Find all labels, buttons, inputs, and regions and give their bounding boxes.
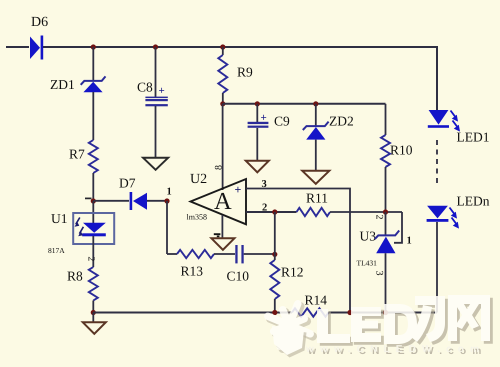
ground below ZD2 xyxy=(302,171,329,184)
svg-text:R7: R7 xyxy=(69,147,85,162)
resistor R7 xyxy=(89,140,98,173)
svg-text:R9: R9 xyxy=(237,65,253,80)
label R13 xyxy=(181,264,204,279)
junction bottom rail / R12 xyxy=(272,310,277,315)
svg-text:1: 1 xyxy=(407,236,412,247)
ground op-amp V- xyxy=(211,238,234,250)
svg-text:LEDn: LEDn xyxy=(457,194,490,209)
diode D7 xyxy=(130,192,147,210)
plus sign of op-amp xyxy=(235,183,242,197)
wire bottom rail right xyxy=(329,312,438,314)
svg-text:2: 2 xyxy=(374,215,385,220)
wire U3 anode to bottom rail xyxy=(385,253,387,312)
tl431 U3 xyxy=(375,231,399,254)
label ZD1 xyxy=(50,77,75,92)
svg-text:ZD1: ZD1 xyxy=(50,77,75,92)
label U3 xyxy=(360,229,377,244)
wire U1 to R8 xyxy=(92,236,94,267)
svg-text:C8: C8 xyxy=(137,80,153,95)
svg-text:LED1: LED1 xyxy=(457,130,490,145)
junction bottom rail / U3 xyxy=(383,310,388,315)
wire ZD2 to ground xyxy=(315,140,317,171)
junction bus / C9 xyxy=(255,101,260,106)
resistor R13 xyxy=(177,250,214,258)
wire C9 to ground xyxy=(256,128,258,161)
wire C9 column upper xyxy=(256,104,258,122)
svg-text:U2: U2 xyxy=(190,172,207,187)
junction pin2 / R12 column xyxy=(272,209,277,214)
svg-text:+: + xyxy=(159,85,165,97)
wire V+ bus xyxy=(223,103,386,105)
wire bus to op-amp V+ pin8 xyxy=(222,104,224,190)
svg-text:R8: R8 xyxy=(67,269,83,284)
junction C10 / R12 xyxy=(272,252,277,257)
wire ZD1 to R7 xyxy=(92,92,94,140)
wire op-amp V- pin4 down xyxy=(221,215,223,238)
svg-text:TL431: TL431 xyxy=(357,259,378,268)
label D6 xyxy=(31,15,48,30)
wire bus corner down to R10 xyxy=(385,104,387,135)
ground below C8 xyxy=(143,158,168,170)
label 817A xyxy=(48,246,65,255)
label U1 xyxy=(51,211,68,226)
label C10 xyxy=(227,269,250,284)
plus sign of C8 xyxy=(159,85,165,97)
label R10 xyxy=(390,143,413,158)
wire pin3 to sense column xyxy=(246,189,350,313)
junction op-amp output node xyxy=(164,198,169,203)
svg-text:U3: U3 xyxy=(360,229,377,244)
plus sign of C9 xyxy=(261,112,267,124)
pin 2 label xyxy=(262,203,267,214)
op-amp U2 triangle xyxy=(191,179,247,224)
LED LEDn xyxy=(427,206,459,229)
wire R13 to C10 xyxy=(214,253,235,255)
wire U3 reference loop xyxy=(394,212,402,243)
ground below R8 xyxy=(83,322,106,334)
wire op-amp output to feedback column xyxy=(166,201,168,254)
wire R11 to U3 node xyxy=(330,211,402,213)
wire pin2 column down xyxy=(274,212,276,254)
pin 4 mark xyxy=(214,234,221,236)
wire node A into U1 xyxy=(92,201,94,223)
pin 1 label xyxy=(167,187,172,198)
wire R7 to node A xyxy=(92,173,94,201)
label R8 xyxy=(67,269,83,284)
resistor R12 xyxy=(270,260,279,299)
wire junction to ground U1 column xyxy=(92,313,94,323)
resistor R9 xyxy=(218,55,227,93)
wire C10 to R12 column xyxy=(244,253,275,255)
capacitor C10 xyxy=(235,245,243,263)
svg-text:C10: C10 xyxy=(227,269,250,284)
junction bus / R9 xyxy=(220,101,225,106)
wire node A to D7 xyxy=(93,200,129,202)
svg-text:R13: R13 xyxy=(181,264,204,279)
resistor R8 xyxy=(89,267,98,301)
pin 8 (infinity mark) xyxy=(214,165,225,170)
wire ZD2 column upper xyxy=(315,104,317,126)
wire bottom rail left xyxy=(93,312,292,314)
junction top rail / C8 column xyxy=(153,44,158,49)
junction node A (R7/D7/U1) xyxy=(91,198,96,203)
pin 3 of U3 (rotated) xyxy=(374,271,385,276)
wire top rail to LED column xyxy=(43,47,437,110)
wire C8 to ground xyxy=(155,106,157,158)
junction bottom rail / sense column xyxy=(347,310,352,315)
svg-text:R11: R11 xyxy=(306,191,328,206)
label C9 xyxy=(274,114,290,129)
wire dashed LED string xyxy=(436,140,438,186)
op-amp U2 letter A xyxy=(214,188,232,215)
svg-text:1: 1 xyxy=(167,187,172,198)
resistor R11 xyxy=(297,208,331,216)
svg-text:817A: 817A xyxy=(48,246,65,255)
diode D6 xyxy=(30,36,43,60)
watermark LED-wang logo xyxy=(268,295,493,358)
pin 1 mark of U1 xyxy=(85,197,92,199)
pin 3 label xyxy=(262,179,267,190)
capacitor C9 xyxy=(248,122,269,128)
wire D7 to op-amp output node xyxy=(147,200,167,202)
wire R8 to bottom rail xyxy=(92,301,94,314)
wire LEDn cathode down xyxy=(436,222,438,313)
optocoupler U1 LED xyxy=(75,218,106,237)
junction bus / ZD2 xyxy=(313,101,318,106)
svg-text:R10: R10 xyxy=(390,143,413,158)
pin 2 of U1 (rotated) xyxy=(86,257,96,262)
wire R9 to bus junction xyxy=(222,93,224,104)
wire R12 leads xyxy=(274,254,276,312)
label R12 xyxy=(281,265,304,280)
junction R10/R11/U3 xyxy=(383,209,388,214)
svg-text:+: + xyxy=(235,183,242,197)
label TL431 xyxy=(357,259,378,268)
wire top rail to R9 xyxy=(222,47,224,55)
junction top rail / R9 column xyxy=(220,44,225,49)
optocoupler U1 box xyxy=(73,213,114,244)
label LED1 xyxy=(457,130,490,145)
resistor R10 xyxy=(381,135,390,167)
label C8 xyxy=(137,80,153,95)
wire ZD1 column upper xyxy=(92,47,94,80)
pin 1 of U3 xyxy=(407,236,412,247)
svg-text:www.CNLEDW.com: www.CNLEDW.com xyxy=(305,344,485,355)
label D7 xyxy=(119,176,136,191)
svg-text:U1: U1 xyxy=(51,211,68,226)
ground below C9 xyxy=(246,161,269,173)
svg-text:A: A xyxy=(214,188,232,215)
capacitor C8 xyxy=(145,97,167,107)
resistor R14 xyxy=(292,308,329,316)
label R9 xyxy=(237,65,253,80)
label U2 xyxy=(190,172,207,187)
svg-text:lm358: lm358 xyxy=(187,213,207,222)
wire feedback row left xyxy=(167,253,177,255)
zener ZD1 xyxy=(81,76,106,92)
svg-text:R12: R12 xyxy=(281,265,304,280)
LED LED1 xyxy=(428,110,460,132)
label R14 xyxy=(305,293,328,308)
label LEDn xyxy=(457,194,490,209)
wire R10 to U3 node xyxy=(385,167,387,212)
label lm358 xyxy=(187,213,207,222)
label R11 xyxy=(306,191,328,206)
wire U3 cathode xyxy=(385,212,387,235)
label R7 xyxy=(69,147,85,162)
svg-text:D7: D7 xyxy=(119,176,136,191)
svg-text:8: 8 xyxy=(214,165,225,170)
pin 2 of U3 (rotated) xyxy=(374,215,385,220)
svg-text:R14: R14 xyxy=(305,293,328,308)
svg-text:3: 3 xyxy=(374,271,385,276)
svg-text:2: 2 xyxy=(86,257,96,262)
junction bottom rail / R8 xyxy=(91,310,96,315)
label ZD2 xyxy=(329,114,354,129)
wire pin2 to R11 xyxy=(246,211,297,213)
zener ZD2 xyxy=(303,122,329,140)
wire C8 column upper xyxy=(155,47,157,97)
wire top rail left segment xyxy=(6,46,29,48)
svg-text:ZD2: ZD2 xyxy=(329,114,354,129)
svg-text:C9: C9 xyxy=(274,114,290,129)
junction top rail / ZD1 column xyxy=(91,44,96,49)
svg-text:D6: D6 xyxy=(31,15,48,30)
